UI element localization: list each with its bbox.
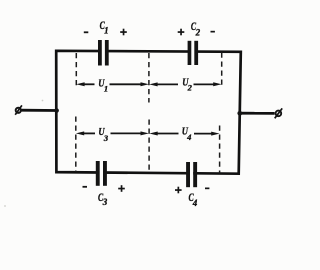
svg-text:1: 1 [104,84,108,94]
terminal (right output, phi symbol) [275,108,283,118]
node C dashed projection (right, lower) [219,126,221,174]
svg-text:3: 3 [103,133,109,143]
voltage U2 dimension line [156,83,215,85]
voltage U1 arrowhead right [141,82,149,86]
voltage U2 arrowhead left [149,82,157,86]
terminal (left input, phi symbol) [15,105,22,114]
junction node left [54,108,59,113]
polarity plus of C1 [120,29,127,36]
wire gap for capacitor C2 [191,45,195,57]
node C dashed projection (right, upper) [221,53,223,89]
node B dashed projection (middle, upper) [148,53,150,103]
polarity plus of C3 [118,185,125,192]
capacitor C4 plates [186,162,197,187]
voltage U1 arrowhead left [76,82,84,86]
voltage U1 dimension line [83,83,142,85]
label C1 [100,18,109,36]
faint paper speck [42,100,44,102]
capacitor C3 plates [96,161,107,186]
svg-text:4: 4 [186,132,191,142]
svg-text:2: 2 [187,82,193,92]
node A dashed projection (left, upper) [75,53,77,88]
svg-text:3: 3 [102,197,108,207]
label C2 [191,19,201,38]
polarity plus of C4 [175,187,182,194]
polarity minus of C3 [83,186,88,188]
polarity minus of C4 [205,188,209,190]
wire gap for capacitor C3 [100,166,104,178]
svg-text:4: 4 [192,198,198,208]
node A dashed projection (left, lower) [75,117,77,172]
svg-text:2: 2 [195,27,201,37]
label C3 [98,190,108,207]
voltage U4 dimension line [157,133,213,135]
wire gap for capacitor C1 [101,45,105,57]
voltage U2 arrowhead right [213,82,221,86]
capacitor C1 plates [98,40,109,66]
wire: right terminal lead [240,112,275,115]
svg-text:1: 1 [104,26,109,36]
voltage U3 arrowhead right [141,131,149,135]
label U3 [98,127,109,143]
voltage U4 arrowhead right [211,132,219,136]
wire: outer rectangle loop (top/right/bottom/left sides) [56,51,241,174]
polarity minus of C1 [84,31,89,33]
voltage U3 dimension line [83,132,142,134]
polarity minus of C2 [211,31,215,33]
polarity plus of C2 [178,29,185,36]
faint paper speck [4,205,6,207]
label U2 [182,77,192,92]
voltage U4 arrowhead left [149,132,157,136]
capacitor C2 plates [188,41,199,65]
label U4 [182,126,192,142]
wire: left terminal lead [21,109,58,112]
node B dashed projection (middle, lower) [148,120,150,172]
wire gap for capacitor C4 [190,167,193,179]
label C4 [189,190,198,208]
label U1 [98,79,108,94]
junction node right [237,111,242,116]
voltage U3 arrowhead left [76,131,84,135]
